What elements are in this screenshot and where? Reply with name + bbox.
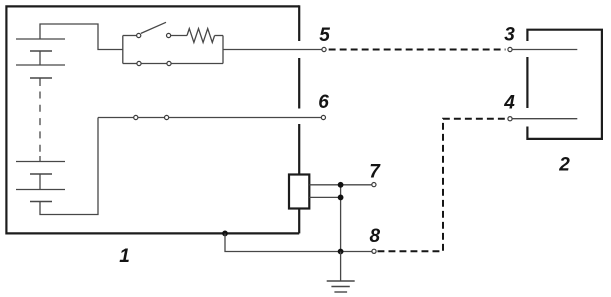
battery cell short plate 2 — [30, 77, 52, 79]
wire: parallel block output to terminal 5 — [223, 49, 322, 51]
battery stub above long plate 3 — [39, 156, 41, 162]
contact row 2 right contact circle — [165, 115, 169, 119]
unit box 1 right edge segment (below fuse to bottom corner) — [298, 209, 300, 234]
svg-text:8: 8 — [370, 226, 381, 247]
wire: left bar to switch S1 contact — [123, 35, 137, 37]
terminal 5 circle — [322, 47, 326, 51]
ground bar 2 — [331, 286, 349, 288]
svg-text:3: 3 — [504, 25, 515, 46]
terminal 8 circle — [372, 249, 376, 253]
svg-text:7: 7 — [369, 162, 381, 183]
unit box 2 outline (top, right, bottom edges with corner stubs) — [527, 30, 602, 139]
wire between lower branch contacts — [141, 63, 167, 65]
battery inter-cell stub (plate3-plate4) — [39, 174, 41, 190]
wire: left bar to contact row 1 lower branch — [123, 63, 137, 65]
unit box 1 outline (top, left, bottom edges) — [6, 6, 299, 233]
dashed harness wire terminal 5 to terminal 3 — [329, 49, 506, 51]
switch S1 left contact circle — [137, 33, 141, 37]
resistor R zigzag — [187, 29, 215, 43]
battery cell long plate 4 — [16, 189, 65, 191]
lower branch left contact circle — [137, 61, 141, 65]
battery cell long plate 1 — [16, 38, 65, 40]
switch S1 blade (open, tilted) — [141, 22, 166, 33]
lower branch right contact circle — [167, 61, 171, 65]
terminal 3 circle — [508, 47, 512, 51]
contact row 2 left contact circle — [134, 115, 138, 119]
battery positive lead wire (top plate to switch block) — [40, 24, 123, 50]
wire: resistor R to right bar — [215, 35, 223, 37]
junction dot on terminal 7 wire — [338, 182, 344, 188]
battery cell short plate 4 — [30, 201, 52, 203]
unit box 1 right edge segment (below terminal 6 gap down to fuse) — [298, 124, 300, 175]
battery cell long plate 2 — [16, 64, 65, 66]
fuse F (in-line component on box edge) — [289, 175, 309, 209]
ground bar 3 — [334, 291, 347, 293]
battery omitted-cells dashed line — [39, 92, 41, 153]
dashed harness wire terminal 8 to terminal 4 — [378, 119, 508, 252]
wire from box bottom edge junction down and right to terminal 8 — [225, 233, 372, 251]
junction dot at ground tap — [338, 249, 344, 255]
parallel block left bus bar — [122, 36, 124, 64]
battery stub below short plate 2 — [39, 78, 41, 86]
wire: terminal 4 into unit 2 — [512, 118, 577, 120]
svg-text:2: 2 — [558, 155, 570, 176]
wire: fuse second tap to vertical drop — [309, 196, 340, 198]
ground lead wire — [340, 252, 342, 282]
wire: lower branch to right bar — [171, 63, 223, 65]
wire: contact row 2 (to terminal 6) left segment — [98, 117, 134, 119]
wire: fuse output to terminal 7 — [309, 184, 371, 186]
svg-text:1: 1 — [119, 246, 130, 267]
junction dot on unit box 1 bottom edge — [222, 231, 228, 237]
parallel block right bus bar — [222, 36, 224, 64]
battery inter-cell stub (plate1-plate2) — [39, 51, 41, 65]
battery cell short plate 1 — [30, 50, 52, 52]
wire: switch S1 to resistor R — [171, 35, 187, 37]
wire: row 2 to terminal 6 — [169, 117, 321, 119]
battery cell long plate 3 — [16, 161, 65, 163]
switch S1 right contact circle — [167, 33, 171, 37]
svg-text:5: 5 — [319, 25, 330, 46]
vertical wire from junction at terminal 7 line down to ground row — [340, 185, 342, 252]
unit box 2 left edge segment (between terminal 3 and terminal 4 gaps) — [526, 57, 528, 108]
battery negative return wire (bottom plate down, right, up to contact row 2) — [40, 118, 98, 215]
battery cell short plate 3 — [30, 173, 52, 175]
junction dot on fuse second tap — [338, 195, 344, 201]
terminal 7 circle — [372, 183, 376, 187]
svg-text:4: 4 — [503, 93, 515, 114]
terminal 4 circle — [508, 117, 512, 121]
ground bar 1 — [327, 280, 355, 282]
wire between row 2 contacts — [138, 117, 165, 119]
svg-text:6: 6 — [318, 92, 329, 113]
wire: terminal 3 into unit 2 — [512, 49, 577, 51]
unit box 1 right edge segment (between terminal 5 and terminal 6 gaps) — [298, 58, 300, 109]
terminal 6 circle — [321, 115, 325, 119]
unit box 1 right edge segment (top corner to terminal 5 gap) — [298, 5, 300, 41]
